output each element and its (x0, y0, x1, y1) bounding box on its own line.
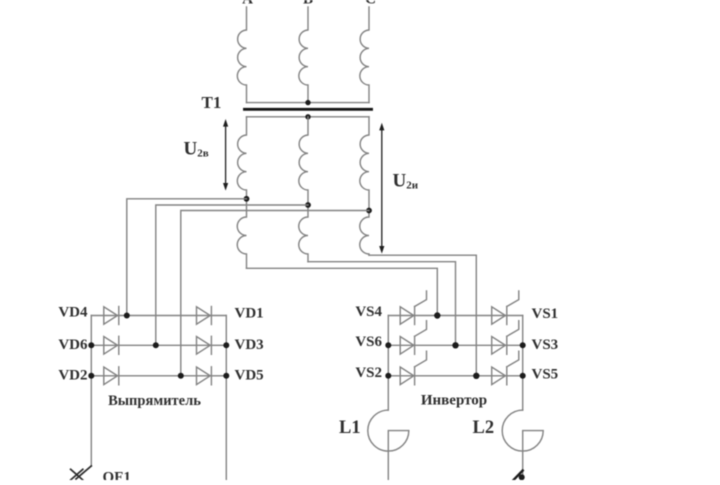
junction phase a on rectifier row 1 (124, 313, 130, 319)
junction inverter left bus row 3 (385, 373, 391, 379)
svg-text:VS2: VS2 (355, 365, 382, 381)
wire winding b bottom to inverter row 2 (308, 262, 456, 346)
svg-text:L2: L2 (473, 418, 495, 438)
svg-text:L1: L1 (339, 418, 361, 438)
diode VD6 (104, 336, 119, 354)
junction rectifier right bus row 3 (223, 373, 229, 379)
svg-text:QF1: QF1 (103, 469, 131, 480)
thyristor VS4 (400, 291, 426, 325)
junction rectifier left bus row 3 (88, 373, 94, 379)
transformer T1 core (245, 108, 372, 111)
diode VD5 (197, 367, 212, 385)
wire inverter row 2 (388, 344, 522, 346)
thyristor VS3 (492, 321, 519, 355)
inductor L1 (368, 410, 409, 480)
circuit breaker QF1 (71, 466, 92, 480)
thyristor VS5 (492, 351, 519, 385)
junction tap phase c (366, 208, 372, 214)
junction rectifier left bus row 2 (88, 342, 94, 348)
svg-text:VS6: VS6 (355, 334, 382, 350)
junction primary neutral at phase B (305, 100, 310, 105)
transformer T1 secondary winding phase c lower half (360, 211, 369, 256)
voltage arrow U2i (379, 123, 384, 254)
diode VD3 (197, 336, 212, 354)
transformer T1 secondary winding phase b lower half (299, 205, 308, 262)
thyristor VS2 (400, 351, 426, 385)
wire winding a bottom to inverter row 1 (247, 268, 438, 315)
transformer T1 secondary winding phase a lower half (237, 199, 246, 268)
wire winding c bottom to inverter row 3 (369, 255, 476, 376)
wire tap c to rectifier row 3 (181, 211, 369, 376)
wire primary neutral rail (247, 102, 370, 104)
wire rectifier row 2 (91, 344, 226, 346)
svg-text:VD5: VD5 (235, 368, 264, 384)
wire secondary star rail (247, 116, 370, 118)
wire rectifier right bus (225, 316, 227, 481)
transformer T1 primary winding phase A (237, 7, 246, 103)
diode VD4 (104, 307, 119, 325)
switch blade at L2 bottom (513, 471, 523, 481)
svg-text:VS1: VS1 (532, 306, 559, 322)
transformer T1 primary winding phase B (299, 7, 308, 103)
svg-text:VS5: VS5 (532, 366, 559, 382)
wire rectifier row 3 (91, 375, 226, 377)
junction phase b on inverter row 2 (452, 342, 458, 348)
svg-text:VD6: VD6 (58, 337, 88, 353)
transformer T1 secondary winding phase a upper half (237, 117, 246, 199)
junction phase b on rectifier row 2 (153, 342, 159, 348)
junction inverter right bus row 2 (520, 342, 526, 348)
thyristor VS6 (400, 321, 426, 355)
diode VD2 (104, 367, 119, 385)
svg-text:C: C (365, 0, 376, 8)
inductor L2 (502, 410, 543, 475)
wire tap b to rectifier row 2 (156, 205, 308, 345)
diode VD1 (197, 307, 212, 325)
junction phase a on inverter row 1 (434, 312, 440, 318)
svg-text:T1: T1 (202, 93, 222, 112)
wire rectifier left bus (90, 316, 92, 467)
junction tap phase a (244, 196, 250, 202)
svg-text:VD4: VD4 (58, 305, 88, 321)
svg-text:VD1: VD1 (235, 306, 264, 322)
svg-text:VD3: VD3 (235, 337, 264, 353)
svg-text:VS4: VS4 (355, 304, 382, 320)
junction phase c on rectifier row 3 (178, 373, 184, 379)
svg-text:A: A (242, 0, 253, 8)
wire inverter row 1 (388, 315, 522, 317)
svg-text:Выпрямитель: Выпрямитель (108, 393, 201, 409)
junction secondary rail at phase B (305, 114, 310, 119)
wire inverter row 3 (388, 375, 522, 377)
voltage arrow U2v (223, 119, 228, 191)
wire inverter left bus (387, 316, 389, 411)
junction tap phase b (305, 202, 311, 208)
wire inverter right bus (522, 316, 524, 411)
junction rectifier right bus row 2 (223, 342, 229, 348)
svg-text:VS3: VS3 (532, 337, 559, 353)
transformer T1 secondary winding phase c upper half (360, 117, 369, 211)
junction L2 bottom node (519, 474, 525, 480)
transformer T1 primary winding phase C (360, 7, 369, 103)
junction inverter left bus row 2 (385, 342, 391, 348)
transformer T1 secondary winding phase b upper half (299, 117, 308, 205)
junction inverter right bus row 3 (520, 373, 526, 379)
svg-text:VD2: VD2 (58, 368, 87, 384)
wire rectifier row 1 (91, 315, 226, 317)
wire tap a to rectifier row 1 (127, 199, 247, 316)
thyristor VS1 (492, 291, 519, 325)
junction phase c on inverter row 3 (473, 373, 479, 379)
svg-text:Инвертор: Инвертор (421, 393, 487, 409)
